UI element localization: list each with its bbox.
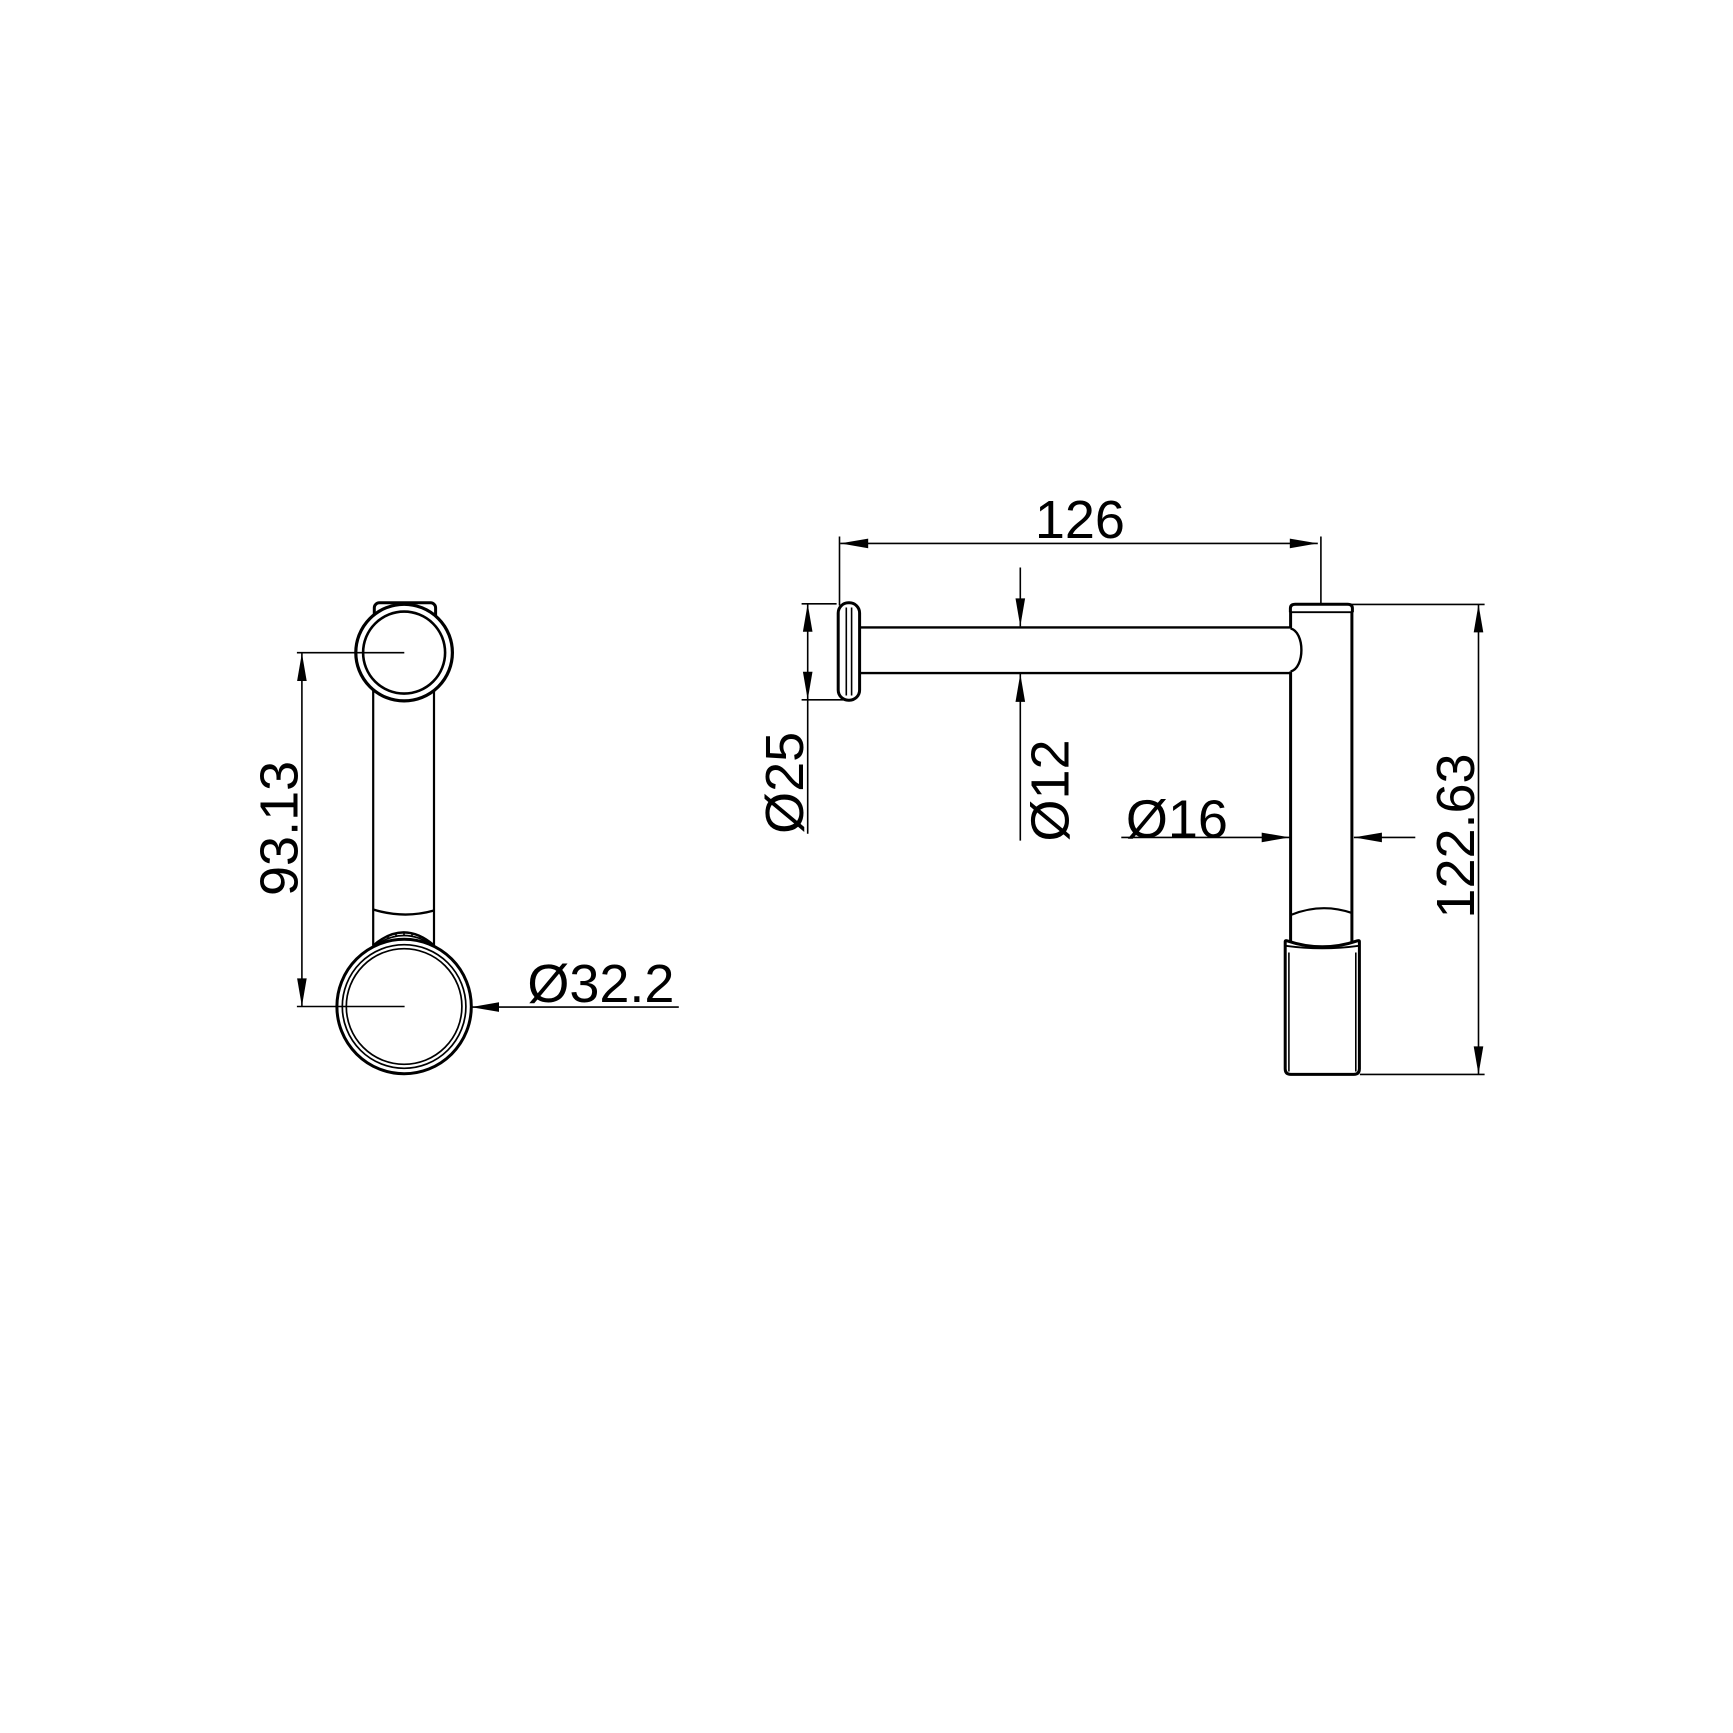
bottom circle ring 3 bbox=[346, 949, 462, 1065]
sleeve inner line left bbox=[1288, 953, 1290, 1072]
lower sleeve bbox=[1285, 941, 1359, 1075]
vertical tube wall right bbox=[433, 650, 435, 946]
horizontal tube top bbox=[860, 626, 1291, 628]
centerline bottom circle bbox=[297, 1006, 405, 1008]
svg-text:93.13: 93.13 bbox=[249, 761, 309, 896]
svg-text:Ø12: Ø12 bbox=[1020, 739, 1080, 841]
dimension Ø16 bbox=[1121, 790, 1415, 850]
dimension Ø12 bbox=[1016, 568, 1081, 842]
svg-text:122.63: 122.63 bbox=[1426, 753, 1486, 918]
wall flange bbox=[838, 603, 859, 700]
vertical body right edge bbox=[1350, 612, 1353, 943]
dimension 126 bbox=[840, 490, 1321, 606]
flange inner line 1 bbox=[845, 608, 847, 696]
bottom circle ring 2 bbox=[342, 945, 466, 1069]
inner transition lens arc bbox=[1292, 908, 1352, 914]
knurled ring dome bbox=[373, 932, 434, 945]
flange inner line 2 bbox=[851, 608, 853, 696]
vertical body left edge upper segment bbox=[1289, 612, 1292, 629]
dimension Ø25 bbox=[755, 604, 844, 834]
wall-plate cap behind top circle bbox=[374, 603, 435, 641]
top circle inner bbox=[363, 612, 445, 694]
svg-text:Ø25: Ø25 bbox=[755, 732, 815, 834]
dimension 122.63 bbox=[1351, 604, 1486, 1074]
vertical tube wall left bbox=[372, 650, 374, 946]
sleeve inner line right bbox=[1355, 953, 1357, 1072]
tube lower end arc bbox=[373, 910, 434, 915]
svg-text:Ø32.2: Ø32.2 bbox=[527, 954, 674, 1014]
bottom circle outer ring bbox=[337, 939, 471, 1073]
cap bottom line bbox=[1290, 611, 1352, 613]
vertical body left edge lower segment bbox=[1289, 672, 1292, 943]
dimension leader Ø32.2 bbox=[471, 954, 679, 1014]
body top cap bbox=[1290, 604, 1352, 612]
socket bulge at tube end bbox=[1291, 629, 1302, 672]
centerline top circle bbox=[297, 652, 404, 654]
svg-text:126: 126 bbox=[1035, 490, 1125, 550]
sleeve front rim arc bbox=[1286, 946, 1359, 949]
horizontal tube bottom bbox=[860, 672, 1291, 674]
top circle outer bbox=[356, 604, 453, 701]
svg-text:Ø16: Ø16 bbox=[1126, 790, 1228, 850]
dimension 93.13 bbox=[249, 653, 309, 1006]
